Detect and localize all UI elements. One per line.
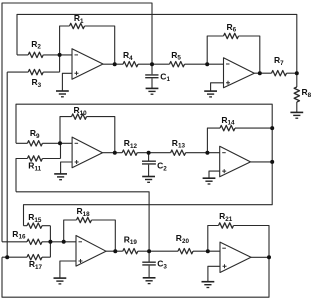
op-amp U5 minus pin xyxy=(79,241,83,243)
svg-text:R4: R4 xyxy=(123,50,133,62)
resistor R10 feedback loop wire xyxy=(60,117,115,153)
svg-text:R10: R10 xyxy=(74,105,88,117)
wire feedback column from R3 down to R17 xyxy=(6,72,8,257)
svg-text:R9: R9 xyxy=(30,128,40,140)
node C3 top xyxy=(147,249,151,253)
resistor R5 xyxy=(170,61,185,66)
svg-text:R16: R16 xyxy=(12,229,26,241)
ground U5 xyxy=(54,278,67,284)
svg-text:R2: R2 xyxy=(31,39,41,51)
svg-text:R3: R3 xyxy=(32,77,42,89)
capacitor C1 xyxy=(145,75,158,78)
wire U6 plus to ground xyxy=(208,266,220,281)
op-amp U1 xyxy=(72,49,103,80)
resistor R18 xyxy=(77,217,92,222)
op-amp U4 minus pin xyxy=(222,152,226,154)
wire U2 plus to ground xyxy=(211,83,224,91)
resistor R9 xyxy=(27,141,42,146)
svg-text:R19: R19 xyxy=(124,234,138,246)
ground C2 xyxy=(142,177,155,183)
svg-text:R13: R13 xyxy=(172,138,186,150)
ground U1 xyxy=(56,91,69,97)
resistor R17 input wire xyxy=(2,256,50,258)
op-amp U6 minus pin xyxy=(222,247,226,249)
resistor R20 xyxy=(178,249,193,254)
resistor R17 xyxy=(27,255,42,260)
wire row2 feedback loop from R9 over top right side down to R15 feed xyxy=(16,104,272,226)
resistor R21 feedback loop wire xyxy=(208,226,269,258)
op-amp U2 plus pin xyxy=(226,81,230,85)
op-amp U1 minus pin xyxy=(75,54,79,56)
resistor R7 xyxy=(272,71,287,76)
wire net C1-node up across top to left edge down to R16 xyxy=(2,3,152,242)
wire U4 output xyxy=(251,161,273,163)
node U2 output junction xyxy=(258,71,262,75)
node C2 top xyxy=(147,151,151,155)
op-amp U1 plus pin xyxy=(75,71,79,75)
resistor R10 xyxy=(72,114,87,119)
resistor R12 xyxy=(122,150,137,155)
resistor R16 xyxy=(27,239,42,244)
node U6 output junction xyxy=(267,255,271,259)
op-amp U6 plus pin xyxy=(223,264,227,268)
wire U3 output to R12 xyxy=(103,152,149,154)
wire C1 node to R5 xyxy=(152,63,224,65)
op-amp U4 plus pin xyxy=(222,169,226,173)
op-amp U6 xyxy=(220,242,251,272)
node U3 output junction xyxy=(113,151,117,155)
op-amp U2 minus pin xyxy=(226,63,230,65)
svg-text:R18: R18 xyxy=(77,206,91,218)
node row2 minus junction xyxy=(58,141,62,145)
resistor R3 input wire xyxy=(7,55,59,72)
wire row1 minus line from R2 to op-amp U1 xyxy=(17,54,72,56)
resistor R16 input wire xyxy=(2,241,76,243)
resistor R1 xyxy=(70,23,85,28)
resistor R14 xyxy=(220,125,235,130)
wire U5 plus to ground xyxy=(60,261,76,278)
resistor R3 xyxy=(28,69,43,74)
resistor R15 input wire xyxy=(24,226,51,258)
svg-text:R17: R17 xyxy=(29,259,43,271)
node R17 input junction xyxy=(5,255,9,259)
node R7/R8 junction xyxy=(295,71,299,75)
wire C3 node to R20 to U6 minus xyxy=(149,250,220,252)
resistor R4 xyxy=(123,61,138,66)
resistor R21 xyxy=(219,223,234,228)
node U1 output junction xyxy=(113,62,117,66)
capacitor C1 lead xyxy=(151,64,153,88)
wire row2 bottom feed to C3 node xyxy=(16,192,149,251)
node U6 minus junction xyxy=(206,249,210,253)
op-amp U3 plus pin xyxy=(75,160,79,164)
node U2 minus junction xyxy=(205,62,209,66)
node R14 feedback tap xyxy=(270,126,274,130)
wire U4 plus to ground xyxy=(209,171,220,178)
ground R8 xyxy=(290,112,303,118)
op-amp U5 xyxy=(76,236,106,267)
resistor R15 xyxy=(27,223,42,228)
svg-text:R5: R5 xyxy=(171,50,181,62)
resistor R11 xyxy=(27,156,42,161)
ground U2 xyxy=(204,91,217,97)
ground C1 xyxy=(146,88,159,94)
op-amp U3 minus pin xyxy=(75,142,79,144)
resistor R8 lead xyxy=(296,73,298,112)
resistor R11 input wire xyxy=(16,143,61,192)
resistor R6 xyxy=(224,33,239,38)
op-amp U2 xyxy=(224,58,255,88)
capacitor C2 xyxy=(142,161,156,164)
resistor R13 xyxy=(171,150,186,155)
wire U3 plus to ground xyxy=(61,162,73,174)
svg-text:R8: R8 xyxy=(302,87,312,99)
node row1 minus junction xyxy=(58,53,62,57)
wire U5 output to R19 xyxy=(106,250,149,252)
resistor R1 feedback loop wire xyxy=(60,26,115,64)
resistor R19 xyxy=(123,249,138,254)
ground U6 xyxy=(202,282,215,288)
node U4 minus junction xyxy=(205,151,209,155)
svg-text:C2: C2 xyxy=(157,161,167,173)
wire C2 node to R13 to U4 minus xyxy=(149,152,220,154)
svg-text:R12: R12 xyxy=(124,138,138,150)
capacitor C3 lead xyxy=(148,251,150,278)
node R15/R17 junction on row3 minus line xyxy=(48,240,52,244)
wire U6 output xyxy=(251,256,269,258)
ground C3 xyxy=(143,278,156,284)
svg-text:R14: R14 xyxy=(221,115,235,127)
resistor R18 feedback loop wire xyxy=(64,220,116,251)
op-amp U5 plus pin xyxy=(79,259,83,263)
svg-text:R11: R11 xyxy=(28,161,41,173)
ground U4 xyxy=(203,178,216,184)
wire R9 to U3 minus xyxy=(16,142,72,144)
svg-text:R21: R21 xyxy=(219,211,233,223)
node U4 output junction xyxy=(270,160,274,164)
op-amp U4 xyxy=(220,146,251,177)
wire U2 output to R7 xyxy=(254,72,296,74)
wire U1 output xyxy=(103,63,152,65)
node U5 output junction xyxy=(113,249,117,253)
svg-text:R6: R6 xyxy=(227,22,237,34)
capacitor C2 lead xyxy=(148,153,150,177)
svg-text:R20: R20 xyxy=(176,233,190,245)
node R18 feedback tap on row3 minus line xyxy=(62,240,66,244)
resistor R2 xyxy=(28,52,43,57)
wire global feedback from U6 output down around bottom to R17/R3 xyxy=(2,257,269,297)
capacitor C3 xyxy=(142,262,156,265)
svg-text:R7: R7 xyxy=(274,55,284,67)
node C1 top xyxy=(150,62,154,66)
op-amp U3 xyxy=(72,137,102,168)
resistor R14 feedback loop wire xyxy=(207,128,272,153)
svg-text:C1: C1 xyxy=(160,71,170,83)
wire net R7/R8 junction up across to R2 input xyxy=(17,14,297,73)
svg-text:C3: C3 xyxy=(157,259,167,271)
svg-text:R15: R15 xyxy=(28,212,42,224)
resistor R8 xyxy=(294,87,299,102)
resistor R6 feedback loop wire xyxy=(207,36,260,73)
ground U3 xyxy=(54,174,67,180)
wire U1 plus to ground xyxy=(62,73,72,91)
